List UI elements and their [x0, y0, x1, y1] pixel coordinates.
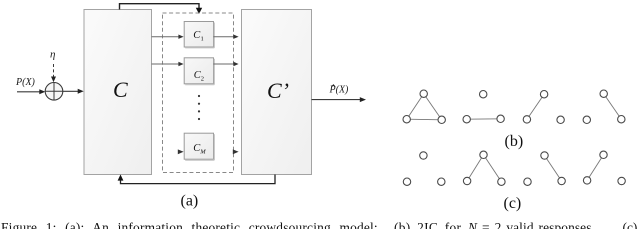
vertical ellipsis dots — [198, 95, 200, 120]
svg-text:(b) 2IC for: (b) 2IC for — [394, 220, 462, 229]
svg-text:(c): (c) — [504, 195, 522, 212]
wire arrow into CM — [178, 149, 184, 154]
graph c2 vee path — [467, 155, 501, 182]
svg-text:(c): (c) — [623, 220, 638, 229]
svg-text:(a): (a) — [181, 193, 199, 210]
svg-text:N = 2 valid responses.: N = 2 valid responses. — [467, 220, 595, 229]
wire output arrow from C' — [312, 97, 367, 102]
label (b) — [505, 133, 524, 150]
svg-text:2: 2 — [201, 75, 204, 82]
wire adder to block C — [63, 89, 84, 94]
caption Figure 1 — [1, 220, 637, 235]
graph b1 triangle — [407, 94, 442, 120]
block CM — [184, 133, 214, 160]
graph b2 pair plus isolated — [467, 118, 501, 120]
wire arrow out of CM — [233, 149, 239, 154]
block C2 — [184, 58, 214, 85]
graph b3 edge down-left — [527, 94, 544, 119]
svg-text:C: C — [113, 77, 128, 102]
label (a) — [181, 193, 199, 210]
graph c3 edge down-right — [545, 156, 562, 182]
wire C2 to C' — [214, 62, 239, 66]
wire C to C2 — [152, 62, 184, 66]
wire bottom feedback from C' to C — [118, 175, 275, 184]
wire C to C1 — [152, 35, 184, 39]
block C1 — [184, 22, 214, 48]
graph c4 edge down-left — [587, 155, 603, 181]
wire dashed eta arrow into adder — [51, 64, 56, 82]
svg-text:(b): (b) — [505, 133, 524, 150]
svg-text:P(X): P(X) — [15, 77, 36, 88]
node P(X) input label — [15, 77, 36, 88]
svg-text:Figure 1: (a): An information: Figure 1: (a): An information theoretic … — [1, 220, 378, 229]
graph b4 edge down-right — [604, 94, 622, 120]
dashed crowd box — [163, 13, 234, 173]
node Phat(X) output label — [329, 85, 350, 96]
adder (sum node) — [45, 83, 63, 101]
svg-text:1: 1 — [201, 36, 204, 43]
node eta label — [50, 49, 55, 61]
wire C1 to C' — [214, 35, 239, 39]
graph c1 three isolated nodes — [403, 152, 445, 186]
block C — [84, 10, 152, 175]
wire input line into adder — [17, 89, 45, 94]
svg-text:C’: C’ — [267, 78, 289, 103]
block C' — [242, 10, 312, 175]
label (c) — [504, 195, 522, 212]
wire top feedback from C to crowd box — [120, 4, 203, 14]
svg-text:η: η — [50, 49, 55, 61]
svg-text:M: M — [199, 149, 206, 156]
